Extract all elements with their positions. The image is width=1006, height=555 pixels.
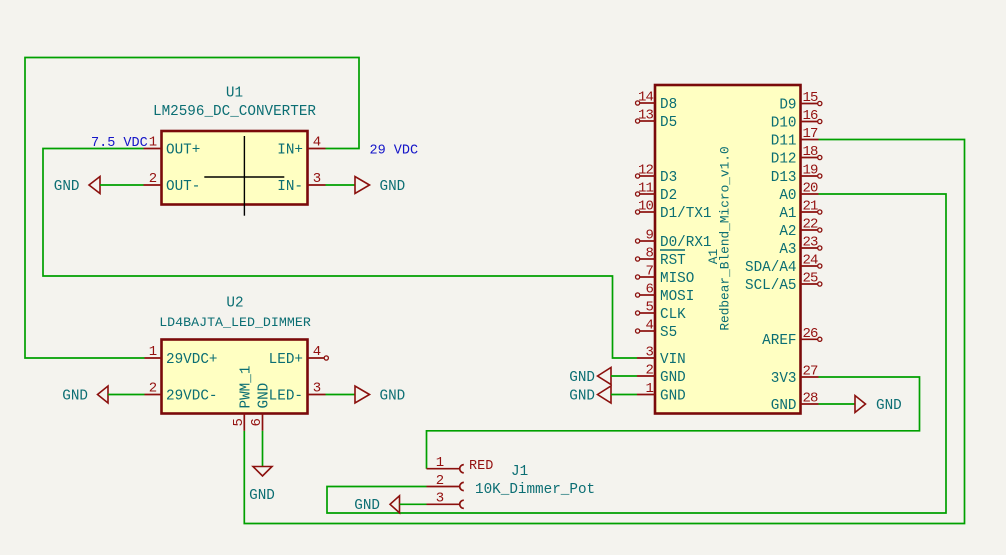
svg-text:RST: RST (660, 253, 686, 269)
svg-text:10: 10 (638, 199, 654, 215)
svg-text:LM2596_DC_CONVERTER: LM2596_DC_CONVERTER (153, 104, 316, 120)
ground label at U2 pin 3 (326, 386, 406, 404)
svg-text:GND: GND (569, 370, 595, 386)
wire net 7.5VDC: U1 OUT+ to A1 VIN (43, 149, 637, 359)
ground label at A1 pin 1 (569, 386, 637, 404)
A1 pin 14 D8 (unconnected) (636, 90, 678, 113)
svg-text:3V3: 3V3 (771, 371, 797, 387)
svg-text:LED-: LED- (269, 388, 303, 404)
ground power symbol below U2 pin 6 (249, 431, 275, 504)
svg-text:LED+: LED+ (269, 352, 303, 368)
svg-text:19: 19 (803, 163, 819, 179)
svg-text:GND: GND (249, 488, 275, 504)
svg-text:RED: RED (469, 459, 493, 474)
svg-text:AREF: AREF (762, 333, 796, 349)
svg-text:GND: GND (771, 398, 797, 414)
svg-text:20: 20 (803, 181, 819, 197)
U2 pin 2 29VDC- (145, 381, 218, 405)
svg-text:GND: GND (660, 370, 686, 386)
svg-text:1: 1 (149, 344, 157, 360)
svg-text:27: 27 (803, 364, 819, 380)
A1 pin 27 3V3 (771, 364, 819, 387)
svg-text:2: 2 (149, 381, 157, 397)
svg-text:U2: U2 (226, 296, 243, 312)
svg-text:29 VDC: 29 VDC (370, 144, 419, 159)
svg-text:17: 17 (803, 126, 819, 142)
A1 pin 2 GND (637, 363, 686, 386)
svg-text:J1: J1 (511, 464, 528, 480)
svg-text:28: 28 (803, 391, 819, 407)
svg-text:LD4BAJTA_LED_DIMMER: LD4BAJTA_LED_DIMMER (159, 315, 311, 330)
U2 pin 1 29VDC+ (145, 344, 218, 368)
svg-text:1: 1 (645, 381, 653, 397)
ground label at A1 pin 2 (569, 368, 637, 386)
A1 pin 25 SCL/A5 (unconnected) (745, 271, 822, 294)
svg-text:1: 1 (436, 455, 444, 471)
svg-text:D8: D8 (660, 97, 677, 113)
svg-text:25: 25 (803, 271, 819, 287)
svg-text:D13: D13 (771, 170, 797, 186)
svg-text:GND: GND (380, 179, 406, 195)
svg-text:GND: GND (380, 388, 406, 404)
A1 pin 28 GND (771, 391, 819, 414)
A1 pin 22 A2 (unconnected) (779, 217, 822, 240)
A1 pin 1 GND (637, 381, 686, 404)
component A1 Redbear_Blend_Micro_v1.0 (655, 85, 801, 414)
svg-text:26: 26 (803, 326, 819, 342)
svg-text:MOSI: MOSI (660, 289, 694, 305)
svg-text:SDA/A4: SDA/A4 (745, 260, 796, 276)
A1 pin 12 D3 (unconnected) (636, 163, 678, 186)
svg-text:8: 8 (645, 246, 653, 262)
svg-text:IN+: IN+ (277, 142, 303, 158)
A1 pin 6 MOSI (unconnected) (636, 282, 695, 305)
svg-text:S5: S5 (660, 325, 677, 341)
U1 pin 3 IN- (277, 171, 325, 195)
A1 pin 10 D1/TX1 (unconnected) (636, 199, 712, 222)
wire net A0: A1 pin20 to J1 pin2 (327, 194, 946, 513)
A1 pin 18 D12 (unconnected) (771, 144, 822, 167)
svg-text:GND: GND (54, 179, 80, 195)
svg-text:GND: GND (256, 383, 272, 409)
svg-text:6: 6 (249, 419, 265, 427)
A1 pin 17 D11 (771, 126, 819, 149)
U2 pin 6 GND (bottom) (249, 383, 272, 431)
svg-text:GND: GND (62, 388, 88, 404)
svg-text:D1/TX1: D1/TX1 (660, 206, 711, 222)
svg-text:IN-: IN- (277, 179, 303, 195)
svg-text:4: 4 (313, 135, 321, 151)
ground label at U2 pin 2 (62, 386, 144, 404)
ground label at J1 pin 3 (354, 496, 426, 514)
J1 pin 3 (427, 491, 464, 509)
svg-text:24: 24 (803, 253, 819, 269)
A1 pin 8 RST (unconnected, overline) (636, 246, 687, 269)
svg-text:3: 3 (436, 491, 444, 507)
wire net 3V3: A1 pin27 to J1 pin1 (427, 377, 920, 469)
svg-text:MISO: MISO (660, 271, 694, 287)
svg-text:12: 12 (638, 163, 654, 179)
svg-text:29VDC-: 29VDC- (166, 388, 217, 404)
svg-text:Redbear_Blend_Micro_v1.0: Redbear_Blend_Micro_v1.0 (718, 146, 733, 330)
svg-text:9: 9 (645, 228, 653, 244)
svg-text:13: 13 (638, 108, 654, 124)
A1 pin 15 D9 (unconnected) (779, 90, 822, 113)
svg-text:SCL/A5: SCL/A5 (745, 278, 796, 294)
svg-text:D0/RX1: D0/RX1 (660, 235, 711, 251)
ground label at U1 pin 2 (54, 177, 144, 195)
connector J1 10K_Dimmer_Pot (475, 464, 595, 498)
J1 pin 2 (427, 473, 464, 491)
A1 pin 7 MISO (unconnected) (636, 264, 695, 287)
A1 pin 19 D13 (unconnected) (771, 163, 822, 186)
svg-text:22: 22 (803, 217, 819, 233)
U2 pin 3 LED- (269, 381, 326, 405)
svg-text:15: 15 (803, 90, 819, 106)
svg-text:4: 4 (313, 344, 321, 360)
svg-text:D9: D9 (779, 97, 796, 113)
svg-text:A2: A2 (779, 224, 796, 240)
svg-text:D2: D2 (660, 188, 677, 204)
svg-text:7: 7 (645, 264, 653, 280)
svg-text:GND: GND (354, 498, 380, 514)
component U1 LM2596_DC_CONVERTER (153, 86, 316, 216)
A1 pin 4 S5 (unconnected) (636, 318, 678, 341)
svg-text:14: 14 (638, 90, 654, 106)
svg-text:18: 18 (803, 144, 819, 160)
ground label at A1 pin 28 (819, 396, 902, 414)
svg-text:6: 6 (645, 282, 653, 298)
svg-text:3: 3 (645, 345, 653, 361)
svg-text:CLK: CLK (660, 307, 686, 323)
svg-text:D11: D11 (771, 133, 797, 149)
U1 pin 1 OUT+ (144, 135, 201, 159)
svg-text:29VDC+: 29VDC+ (166, 352, 217, 368)
svg-text:VIN: VIN (660, 352, 686, 368)
svg-text:21: 21 (803, 199, 819, 215)
svg-text:7.5 VDC: 7.5 VDC (91, 136, 148, 151)
svg-text:5: 5 (231, 419, 247, 427)
svg-text:PWM_1: PWM_1 (238, 366, 254, 409)
svg-text:D10: D10 (771, 115, 797, 131)
svg-text:U1: U1 (226, 86, 243, 102)
svg-text:10K_Dimmer_Pot: 10K_Dimmer_Pot (475, 482, 595, 498)
svg-text:D3: D3 (660, 170, 677, 186)
svg-text:2: 2 (149, 171, 157, 187)
A1 pin 5 CLK (unconnected) (636, 300, 687, 323)
ground label at U1 pin 3 (326, 177, 406, 195)
A1 pin 9 D0/RX1 (unconnected) (636, 228, 712, 251)
A1 pin 26 AREF (unconnected) (762, 326, 822, 349)
component U2 LD4BAJTA_LED_DIMMER (159, 296, 311, 414)
J1 pin 1 (427, 455, 464, 473)
U1 pin 4 IN+ (277, 135, 325, 159)
svg-text:D5: D5 (660, 115, 677, 131)
wire net D11: A1 pin17 to U2 PWM_1 pin5 (244, 140, 964, 524)
U2 pin 4 LED+ (unconnected) (269, 344, 329, 368)
svg-text:GND: GND (660, 388, 686, 404)
A1 pin 23 A3 (unconnected) (779, 235, 822, 258)
A1 pin 20 A0 (779, 181, 818, 204)
svg-text:GND: GND (876, 398, 902, 414)
A1 pin 16 D10 (unconnected) (771, 108, 822, 131)
svg-text:GND: GND (569, 388, 595, 404)
svg-text:4: 4 (645, 318, 653, 334)
A1 pin 3 VIN (637, 345, 686, 368)
svg-text:11: 11 (638, 181, 654, 197)
U2 pin 5 PWM_1 (bottom) (231, 366, 255, 431)
svg-text:D12: D12 (771, 151, 797, 167)
svg-text:23: 23 (803, 235, 819, 251)
A1 pin 21 A1 (unconnected) (779, 199, 822, 222)
A1 pin 11 D2 (unconnected) (636, 181, 678, 204)
A1 pin 13 D5 (unconnected) (636, 108, 678, 131)
svg-text:A0: A0 (779, 188, 796, 204)
svg-text:A3: A3 (779, 242, 796, 258)
A1 pin 24 SDA/A4 (unconnected) (745, 253, 822, 276)
svg-text:A1: A1 (779, 206, 796, 222)
svg-text:1: 1 (149, 135, 157, 151)
U1 pin 2 OUT- (144, 171, 201, 195)
svg-text:3: 3 (313, 171, 321, 187)
svg-text:16: 16 (803, 108, 819, 124)
svg-text:2: 2 (645, 363, 653, 379)
svg-text:3: 3 (313, 381, 321, 397)
svg-text:5: 5 (645, 300, 653, 316)
svg-text:OUT-: OUT- (166, 179, 200, 195)
svg-text:2: 2 (436, 473, 444, 489)
svg-text:OUT+: OUT+ (166, 142, 200, 158)
wire net 29VDC: U1 IN+ to U2 29VDC+ (25, 58, 359, 359)
